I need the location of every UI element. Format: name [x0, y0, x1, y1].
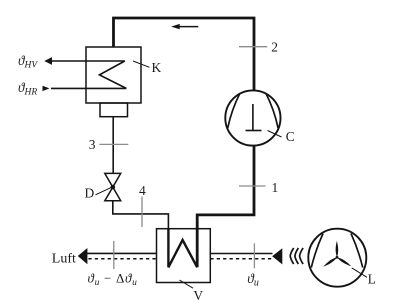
svg-text:C: C: [286, 129, 295, 144]
svg-text:K: K: [152, 60, 162, 75]
svg-text:V: V: [193, 288, 203, 303]
svg-text:2: 2: [271, 40, 278, 55]
svg-text:L: L: [368, 272, 376, 287]
svg-text:4: 4: [139, 183, 146, 198]
svg-text:1: 1: [272, 180, 279, 195]
svg-text:D: D: [85, 186, 95, 201]
svg-text:3: 3: [89, 137, 96, 152]
svg-text:Luft: Luft: [52, 251, 76, 266]
